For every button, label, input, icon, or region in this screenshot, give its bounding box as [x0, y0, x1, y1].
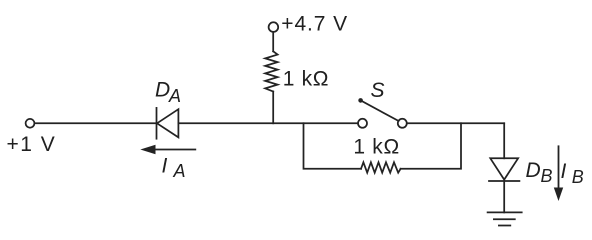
svg-text:+1 V: +1 V [7, 133, 57, 156]
svg-text:S: S [371, 79, 385, 102]
svg-text:B: B [541, 166, 553, 186]
switch S pivot dot [358, 98, 363, 103]
diode DA (cathode bar) [156, 108, 158, 139]
diode DA (triangle) [157, 109, 178, 137]
svg-text:D: D [526, 159, 541, 182]
current arrow IB [554, 145, 563, 201]
wire up-right of parallel resistor R2 [401, 123, 461, 169]
diode DB (triangle) [490, 158, 518, 179]
diode DB (cathode bar) [489, 180, 519, 182]
svg-text:I: I [561, 160, 567, 183]
wire down-left of parallel resistor R2 [304, 123, 362, 169]
switch S left contact [358, 119, 367, 128]
svg-text:B: B [572, 167, 584, 187]
svg-text:A: A [173, 161, 186, 181]
terminal +1V [26, 119, 35, 128]
svg-text:D: D [155, 78, 170, 101]
wire from switch right terminal to diode DB branch [407, 122, 504, 124]
svg-text:I: I [162, 154, 168, 177]
ground [488, 211, 522, 213]
current arrow IA [140, 145, 196, 154]
resistor R1 1k (vertical zigzag) [265, 51, 277, 91]
switch S right contact [398, 119, 407, 128]
switch S blade [361, 100, 399, 121]
wire from diode DB to ground [503, 181, 505, 212]
wire from +4.7V terminal to resistor R1 [272, 32, 274, 51]
svg-text:+4.7 V: +4.7 V [281, 13, 348, 36]
wire from +1V terminal to diode DA [35, 122, 157, 124]
terminal +4.7V [269, 22, 279, 32]
wire from resistor R1 to main node [272, 92, 274, 124]
svg-text:1 kΩ: 1 kΩ [283, 67, 330, 90]
resistor R2 1k (horizontal zigzag) [361, 162, 401, 172]
svg-text:A: A [168, 86, 181, 106]
wire from main node down to diode DB [503, 123, 505, 158]
wire from diode DA to switch left terminal [178, 122, 358, 124]
svg-text:1 kΩ: 1 kΩ [353, 136, 400, 159]
